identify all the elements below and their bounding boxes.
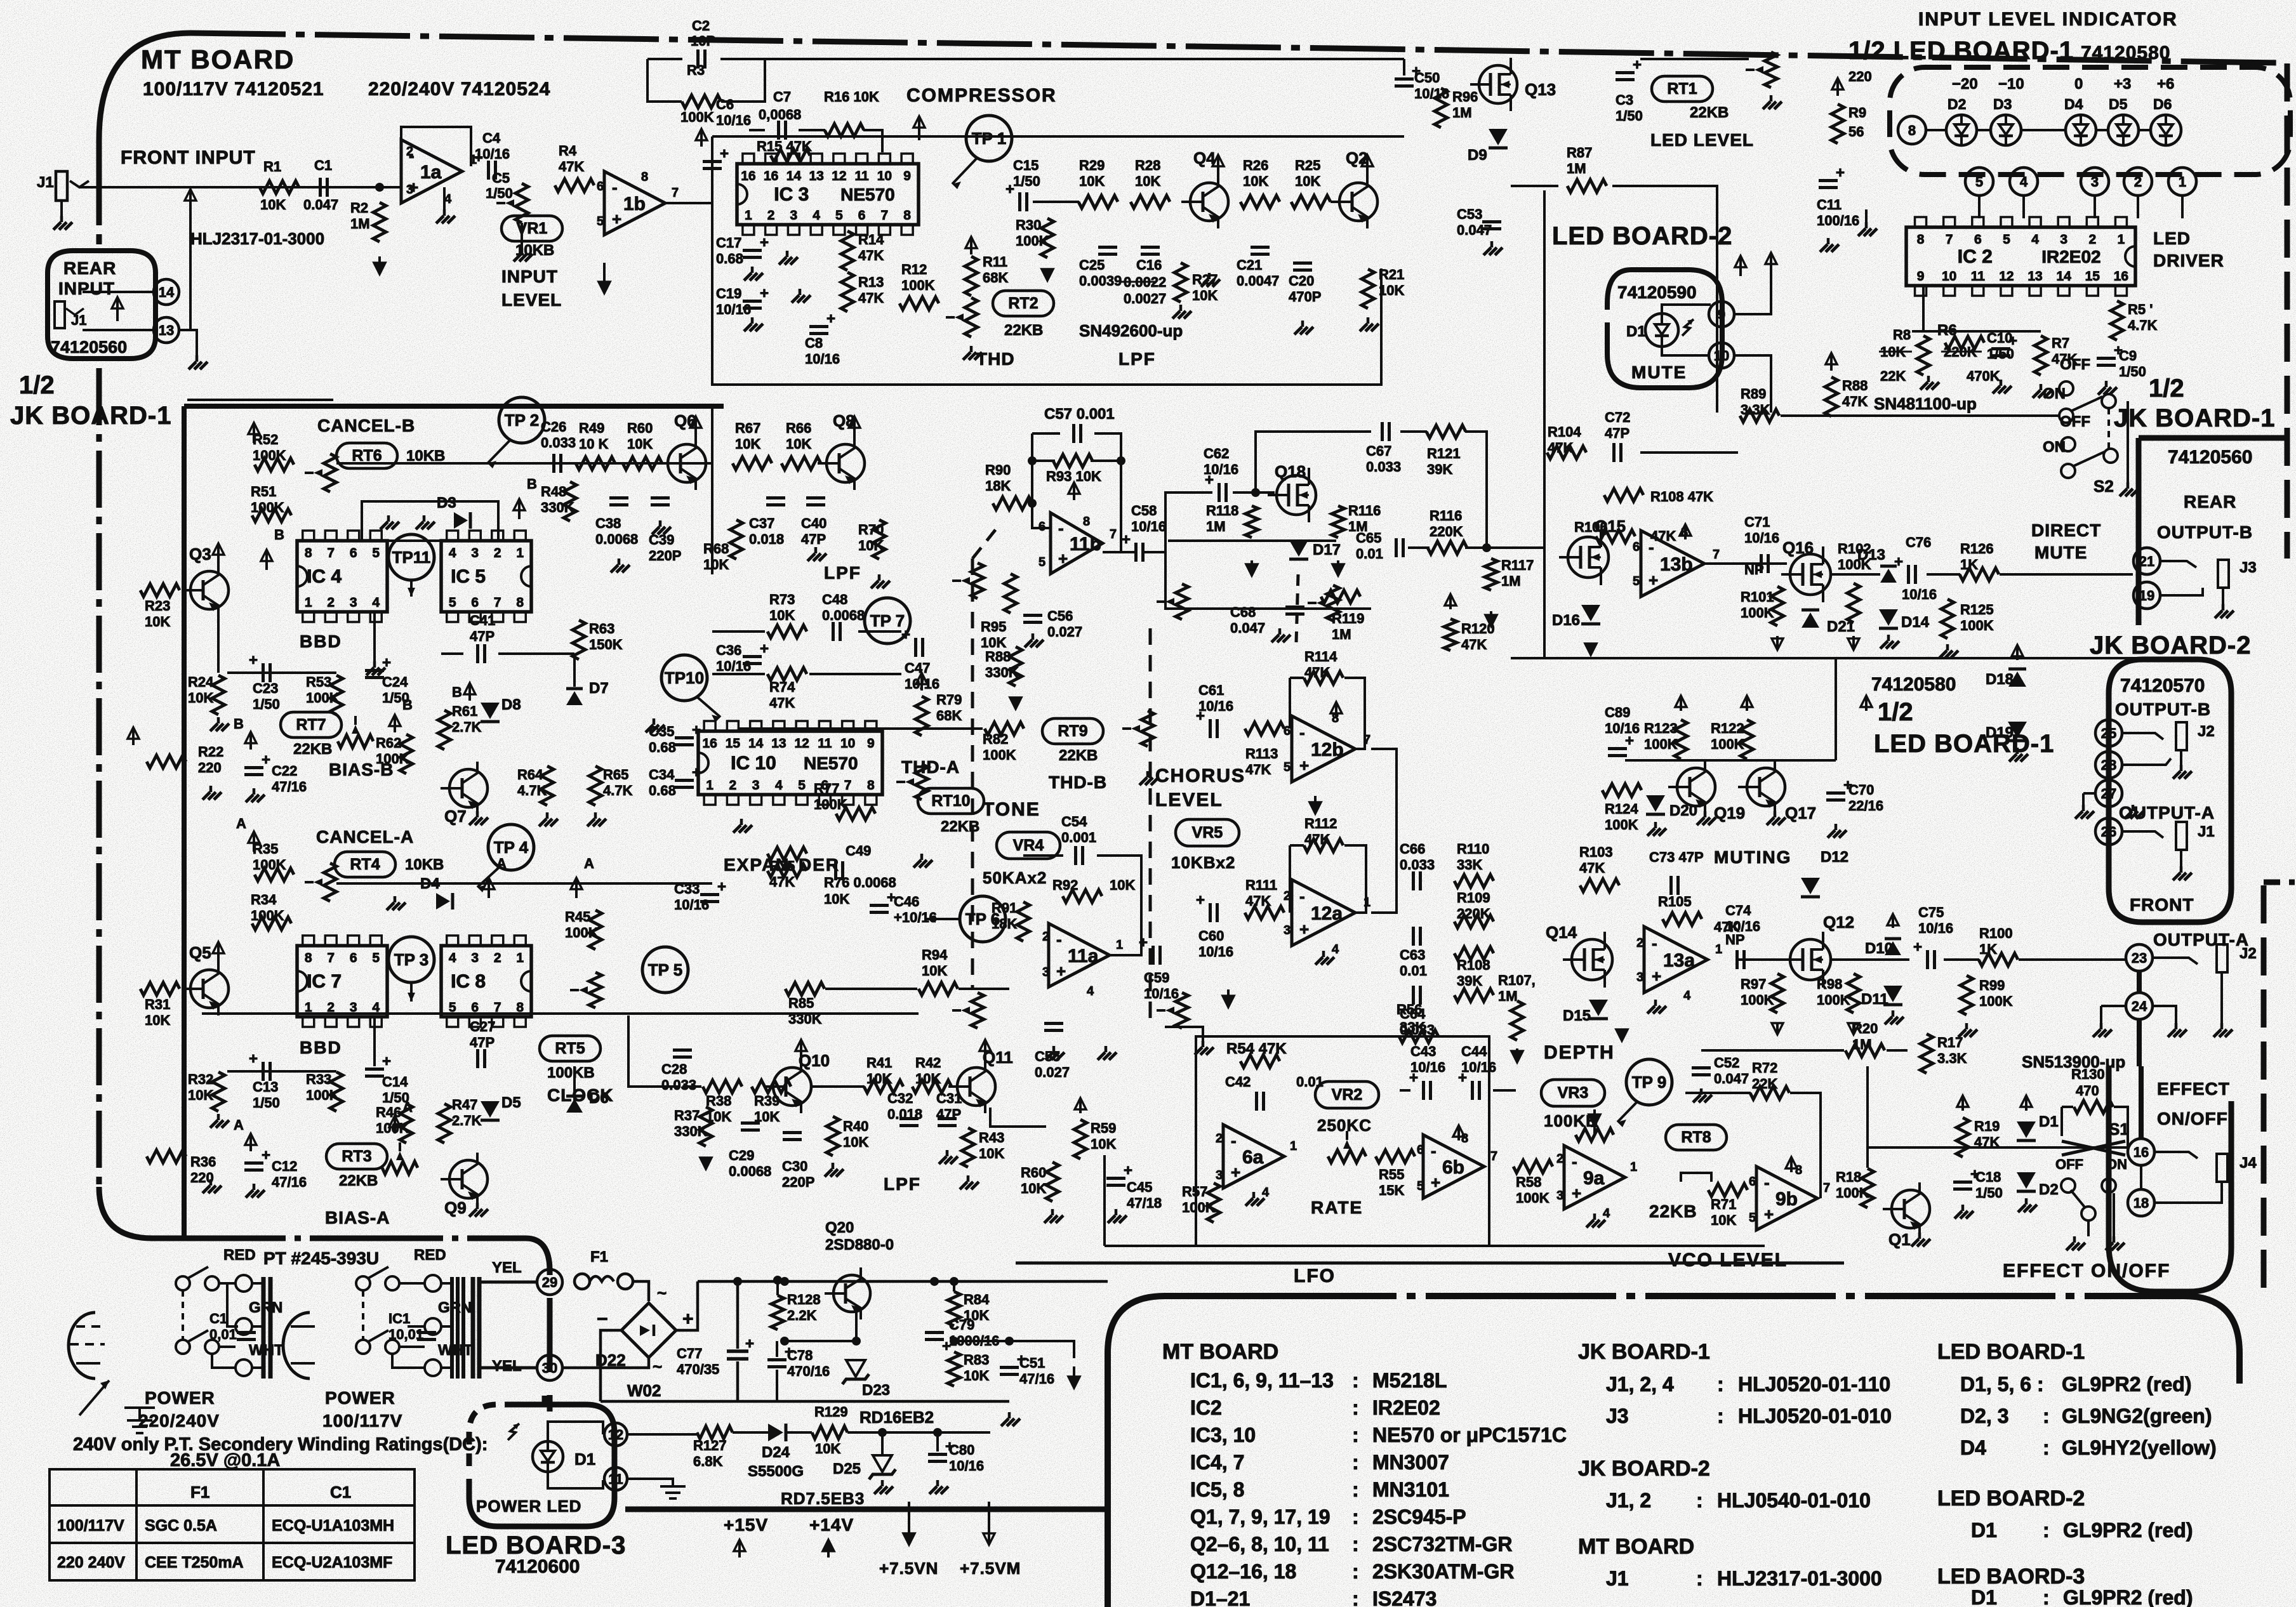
pot cancel-a: [324, 863, 336, 901]
pin 27: [2095, 780, 2122, 807]
resistor R108: [1604, 489, 1643, 501]
wire bridge plus: [676, 1281, 698, 1330]
jack J1 outa: [2176, 822, 2187, 850]
test point TP11: [388, 534, 434, 580]
pin 3: [2081, 168, 2109, 195]
wire 11b out: [1103, 551, 1135, 553]
capacitor C65: [1395, 538, 1398, 557]
resistor R92: [1063, 890, 1102, 903]
resistor R48: [564, 482, 576, 521]
arrow B rt7: [249, 733, 252, 750]
oval VR2: [1315, 1081, 1379, 1108]
resistor R18: [1861, 1168, 1874, 1208]
wire c41: [441, 652, 463, 655]
resistor R88 expander: [1009, 647, 1022, 686]
capacitor C52: [1692, 1066, 1711, 1069]
transistor Q20: [833, 1275, 870, 1312]
resistor R70: [873, 520, 886, 559]
oval RT10: [918, 788, 984, 814]
diode D13: [1880, 569, 1897, 583]
resistor R29: [1078, 195, 1118, 208]
capacitor C43 C44: [1422, 1081, 1425, 1100]
LED BOARD-3 outline: [469, 1405, 614, 1526]
resistor R103: [1580, 879, 1619, 892]
resistor R8 R6 network: [1917, 336, 1930, 375]
wire r84 r83 node: [954, 1340, 1009, 1342]
capacitor C62: [1218, 483, 1221, 502]
JK BOARD-1 right edge dashed: [2285, 63, 2290, 559]
capacitor C48: [832, 622, 835, 641]
capacitor C42: [1255, 1092, 1258, 1111]
wire r87: [1511, 185, 1558, 187]
capacitor C7: [777, 121, 780, 140]
wire c7 r16 loop: [749, 129, 765, 131]
transistor Q5: [190, 970, 229, 1008]
wire tp7: [712, 630, 765, 633]
resistor R41: [864, 1080, 903, 1093]
jack J4: [2217, 1154, 2227, 1182]
resistor R98: [1847, 974, 1860, 1013]
capacitor C50: [1395, 77, 1414, 81]
rail +7.5VM: [988, 1502, 990, 1544]
node arrow from rear input: [189, 190, 192, 232]
resistor R63: [573, 620, 585, 659]
MT BOARD bottom-left corner: [99, 1187, 152, 1238]
compressor enclosure wire: [712, 136, 1381, 385]
switch power 100: [356, 1276, 370, 1290]
capacitor C61: [1209, 719, 1212, 738]
IC5 bbd clock: [441, 541, 531, 612]
oval VR1: [501, 216, 562, 241]
capacitor C38 C39: [609, 496, 628, 499]
capacitor C16: [1141, 246, 1160, 249]
ground ic2 left: [1865, 222, 1868, 228]
op-amp U13b: [1641, 531, 1704, 597]
wires power led: [548, 1422, 603, 1441]
transistor Q3: [190, 571, 229, 609]
wire r116b: [1408, 546, 1430, 549]
wire c62 to q18: [1233, 491, 1275, 494]
oval VR3: [1541, 1080, 1605, 1106]
resistor R23: [140, 584, 180, 597]
resistor R38: [703, 1080, 742, 1093]
resistor R20: [1845, 1044, 1885, 1057]
wires rear input: [83, 291, 154, 293]
resistor R122: [1741, 720, 1753, 759]
capacitor C74: [1735, 950, 1739, 969]
diode D15: [1589, 1000, 1608, 1016]
transistor Q13 fet: [1479, 65, 1517, 103]
wire effect down: [1866, 1066, 1869, 1168]
trimmer RT7 pot: [338, 735, 373, 748]
LED BOARD-2 outline: [1607, 270, 1722, 388]
resistor R68: [730, 520, 743, 559]
resistor R84: [948, 1292, 960, 1326]
resistor R64: [541, 766, 554, 805]
wire clock bus: [573, 1066, 576, 1104]
resistor R14: [841, 231, 854, 270]
resistor R3: [682, 95, 721, 108]
diode D20: [1646, 795, 1665, 812]
pin 5: [1965, 168, 1993, 195]
pot tone upper: [971, 563, 984, 598]
transistor Q18 fet: [1277, 475, 1316, 515]
resistor R116: [1332, 506, 1344, 538]
capacitor C37 C40: [766, 496, 785, 499]
JK BOARD-2 effect box outline: [2109, 1066, 2231, 1292]
ac ground arrow: [79, 1380, 109, 1415]
resistor R125: [1941, 599, 1954, 638]
LFO feedback box: [1196, 1036, 1489, 1246]
pin 10: [1709, 343, 1734, 368]
resistor R76: [767, 864, 807, 877]
op-amp U6a: [1223, 1125, 1284, 1188]
power arrow compressor: [918, 117, 920, 140]
wire muting bus: [1625, 759, 1836, 762]
wire r20: [1701, 1049, 1844, 1052]
resistor R21: [1362, 269, 1374, 308]
capacitor C2: [696, 50, 700, 69]
diode D18: [2008, 671, 2026, 687]
diode D6 led: [2151, 115, 2181, 145]
resistor R91: [1017, 902, 1030, 941]
transistor Q14 fet: [1572, 939, 1612, 980]
transistor Q1: [1892, 1190, 1930, 1228]
capacitor C45: [1106, 1177, 1125, 1180]
resistor R35: [255, 868, 294, 881]
op-amp U9b: [1756, 1167, 1817, 1230]
diode D10: [1885, 941, 1901, 955]
oval VR5: [1176, 819, 1239, 846]
resistor R56: [1399, 1030, 1438, 1043]
resistor R88: [1825, 377, 1838, 416]
capacitor C35: [675, 736, 694, 739]
wire chorus top: [1168, 539, 1336, 542]
wire r128 c79 node: [785, 1340, 856, 1342]
capacitor C73: [1669, 876, 1673, 895]
trimmer RT10: [915, 764, 928, 800]
resistor R62: [400, 734, 413, 774]
resistor R109: [1454, 915, 1494, 928]
capacitor C23: [262, 663, 265, 682]
resistor R60: [1046, 1162, 1059, 1201]
tone dashed link: [971, 559, 974, 990]
capacitor C70: [1826, 791, 1845, 795]
diode D4 led: [2066, 115, 2096, 145]
capacitor C4: [487, 161, 490, 180]
wires pin23-24: [2137, 971, 2142, 993]
arrow A ic7: [488, 879, 490, 898]
capacitor C19: [743, 300, 762, 303]
pin 23: [2126, 944, 2153, 971]
diode D11: [1883, 986, 1902, 1002]
table fuse cap: [50, 1469, 415, 1580]
resistor R65: [589, 766, 602, 805]
diode D21: [1802, 612, 1819, 628]
capacitor C3: [1616, 71, 1635, 74]
trimmer RT2: [965, 298, 978, 337]
resistor R121: [1426, 425, 1466, 438]
pin 8 led board: [1898, 116, 1926, 144]
MT BOARD left border: [96, 197, 102, 244]
resistor R74: [767, 668, 807, 680]
resistor R95: [1004, 574, 1017, 613]
pot cancel-b: [324, 454, 336, 492]
capacitor C53: [1482, 220, 1501, 223]
resistor R58: [1513, 1160, 1553, 1173]
resistor R106: [1596, 530, 1635, 543]
MT BOARD bottom border: [152, 1236, 526, 1241]
wire connector 29 to 30 to LED BOARD-3: [547, 1298, 553, 1372]
resistor R90: [993, 497, 1032, 510]
resistor R130: [2074, 1101, 2113, 1113]
wire q3: [217, 611, 220, 673]
oval RT1: [1652, 76, 1713, 102]
pin 25: [2095, 720, 2122, 746]
wire yel: [479, 1281, 536, 1284]
wire output-a row: [1737, 958, 1790, 961]
wire 9b loop: [1749, 1092, 1751, 1094]
resistor R47: [438, 1104, 451, 1143]
pot chorus link: [1327, 585, 1339, 621]
resistor R99: [1960, 975, 1973, 1015]
trimmer rt8: [1681, 1173, 1711, 1182]
wire effect row: [1868, 1146, 2128, 1149]
IC10 expander: [698, 731, 882, 795]
capacitor C78: [767, 1358, 786, 1361]
pin 12: [604, 1423, 627, 1446]
capacitor C71: [1760, 554, 1763, 573]
resistor R120: [1444, 619, 1457, 651]
switch power 220: [176, 1276, 190, 1290]
resistor R28: [1131, 195, 1170, 208]
wire 12 outs: [1371, 749, 1397, 913]
wires ic2 bottom: [1912, 330, 2041, 333]
diode D17: [1289, 540, 1308, 557]
resistor R45: [589, 910, 602, 949]
capacitor C59: [1151, 946, 1155, 965]
resistor R118: [1245, 506, 1258, 538]
wire c43 loop: [1400, 1089, 1410, 1092]
pot tone lower: [971, 993, 984, 1028]
vertical bus right: [1543, 190, 1546, 658]
diode D14: [1879, 609, 1898, 626]
wire r130 loop: [2062, 1106, 2073, 1108]
pin 18: [2128, 1189, 2154, 1216]
resistor R71: [1708, 1184, 1748, 1196]
capacitor C63: [1412, 927, 1415, 946]
main positive rail: [698, 1280, 1108, 1283]
pin 21: [2133, 548, 2160, 574]
diode D2 led: [1946, 115, 1977, 145]
connector 29: [537, 1269, 562, 1295]
resistor R5: [2111, 301, 2123, 340]
pin 1: [2168, 168, 2196, 195]
op-amp U13a: [1644, 927, 1708, 993]
capacitor C47: [914, 638, 917, 657]
capacitor C29: [741, 1121, 760, 1125]
pin 24: [2126, 993, 2153, 1019]
resistor R4: [555, 179, 594, 192]
capacitor C28: [673, 1048, 692, 1052]
op-amp U12b: [1292, 716, 1355, 782]
resistor R111: [1245, 906, 1284, 919]
resistor R104: [1547, 446, 1586, 459]
resistor R82: [985, 722, 1024, 735]
resistor R128: [771, 1295, 784, 1330]
diode D7: [566, 691, 583, 705]
resistor R25: [1291, 195, 1330, 208]
capacitor C27: [476, 1049, 479, 1068]
lfo bottom bus: [1105, 1245, 1765, 1247]
resistor R75: [767, 847, 807, 860]
jack J1 front: [56, 171, 67, 201]
jack J3: [2218, 560, 2229, 588]
resistor R107: [1454, 989, 1494, 1002]
resistor R27: [1174, 263, 1187, 302]
JK BOARD-2 edge link dash: [2264, 880, 2295, 885]
oval RT8: [1666, 1125, 1727, 1150]
transistor Q9: [449, 1160, 488, 1198]
test point TP5: [642, 947, 688, 993]
wire front input: [79, 186, 400, 188]
resistor R57: [1207, 1183, 1220, 1222]
capacitor C1: [319, 178, 322, 197]
terminal WHT 100: [425, 1359, 441, 1376]
resistor R85: [785, 982, 825, 995]
capacitor C58: [1134, 543, 1138, 562]
capacitor C67: [1381, 422, 1384, 441]
op-amp U1b: [604, 171, 665, 235]
LED BOARD-1 dashed outline: [1890, 67, 2290, 175]
ground ic10: [740, 819, 743, 825]
pin 28: [2095, 751, 2122, 778]
wires led chain: [1926, 129, 1946, 131]
transformer 100: [450, 1277, 454, 1379]
transistor Q6: [668, 444, 706, 482]
wire bbd bias: [227, 671, 336, 674]
oval RT3: [326, 1144, 387, 1169]
wire r89: [1640, 451, 1738, 454]
resistor R94: [919, 982, 958, 995]
wire 13b out: [1704, 562, 1787, 565]
pin 13: [154, 317, 179, 343]
capacitor C34: [675, 779, 694, 782]
test point TP7: [865, 598, 910, 644]
resistor R96: [1435, 88, 1447, 128]
feedback loop R3 C2: [647, 58, 682, 60]
diode D2 effect: [2017, 1172, 2036, 1189]
rail +7.5VN: [908, 1502, 910, 1544]
diode D8: [481, 703, 500, 719]
capacitor C76: [1907, 565, 1910, 584]
capacitor C46: [870, 904, 889, 907]
resistor R54: [1240, 1055, 1280, 1068]
feedback box 1a: [401, 127, 471, 166]
thick line led board3: [625, 1507, 1108, 1512]
wire cancel-b bus: [336, 462, 712, 465]
test point TP10: [661, 655, 707, 701]
capacitor C9: [2097, 357, 2116, 360]
capacitor C72: [1612, 443, 1616, 462]
transistor Q7: [449, 769, 488, 807]
resistor R22: [147, 755, 186, 768]
wire bridge ac2: [562, 1358, 649, 1368]
resistor R126: [1960, 568, 1999, 581]
IC7 bbd: [297, 946, 387, 1017]
IC4 bbd: [297, 541, 387, 612]
diode D3 box: [362, 501, 498, 541]
diode D16: [1581, 605, 1600, 621]
arrow A rt3: [249, 1135, 252, 1151]
capacitor C8: [809, 325, 828, 328]
op-amp U9a: [1564, 1146, 1625, 1209]
oval RT6: [336, 443, 397, 468]
resistor R117: [1485, 559, 1497, 590]
resistor R105: [1662, 913, 1702, 925]
horizontal bus direct mute: [1511, 657, 2152, 659]
wire cancel-a bus: [336, 882, 712, 885]
clock box wires: [682, 1085, 701, 1088]
transistor Q15 fet: [1568, 537, 1609, 578]
label REAR INPUT board: [48, 251, 156, 359]
IC2 led driver: [1906, 227, 2135, 286]
wires power 220: [219, 1282, 236, 1285]
resistor R50: [623, 457, 662, 470]
transistor Q2: [1339, 183, 1377, 221]
op-amp U6b: [1423, 1135, 1484, 1198]
wires led pins: [1978, 195, 1981, 218]
resistor R43: [962, 1128, 974, 1167]
wire q20 emitter: [855, 1312, 858, 1341]
zener D23: [846, 1360, 865, 1377]
wire rt9: [740, 727, 983, 730]
capacitor C68: [1285, 605, 1304, 609]
resistor R15: [771, 149, 810, 162]
wire s2 row: [1854, 414, 2059, 417]
transistor Q12 fet: [1790, 939, 1831, 980]
capacitor C79: [925, 1331, 944, 1334]
pot RT1 led level: [1765, 52, 1777, 88]
capacitor C1 power: [237, 1331, 256, 1334]
capacitor C75: [1926, 950, 1929, 969]
capacitor C56: [1023, 614, 1042, 617]
resistor R110: [1454, 875, 1494, 887]
pin 11: [604, 1467, 627, 1490]
resistor R79: [915, 696, 928, 736]
rail top: [712, 135, 1404, 138]
pot chorus lower: [1176, 993, 1188, 1028]
wire 11a loop: [1023, 854, 1063, 857]
wire 12a loop: [1290, 844, 1304, 847]
test point TP1: [966, 116, 1012, 161]
bottom rail: [601, 1400, 1009, 1403]
resistor R127: [697, 1426, 733, 1439]
resistor R24: [212, 675, 225, 715]
diode D19: [2008, 722, 2027, 738]
test point TP6: [960, 896, 1005, 942]
arrow B d8: [468, 684, 471, 701]
diode D12: [1801, 878, 1820, 894]
oval RT5: [540, 1036, 601, 1061]
resistor R66: [781, 457, 821, 470]
op-amp U12a: [1292, 880, 1355, 946]
MT BOARD top border: [190, 33, 2280, 63]
capacitor C22: [244, 766, 263, 769]
capacitor C14: [365, 1068, 384, 1071]
capacitor C49: [834, 861, 837, 880]
resistor R9: [1831, 104, 1844, 143]
